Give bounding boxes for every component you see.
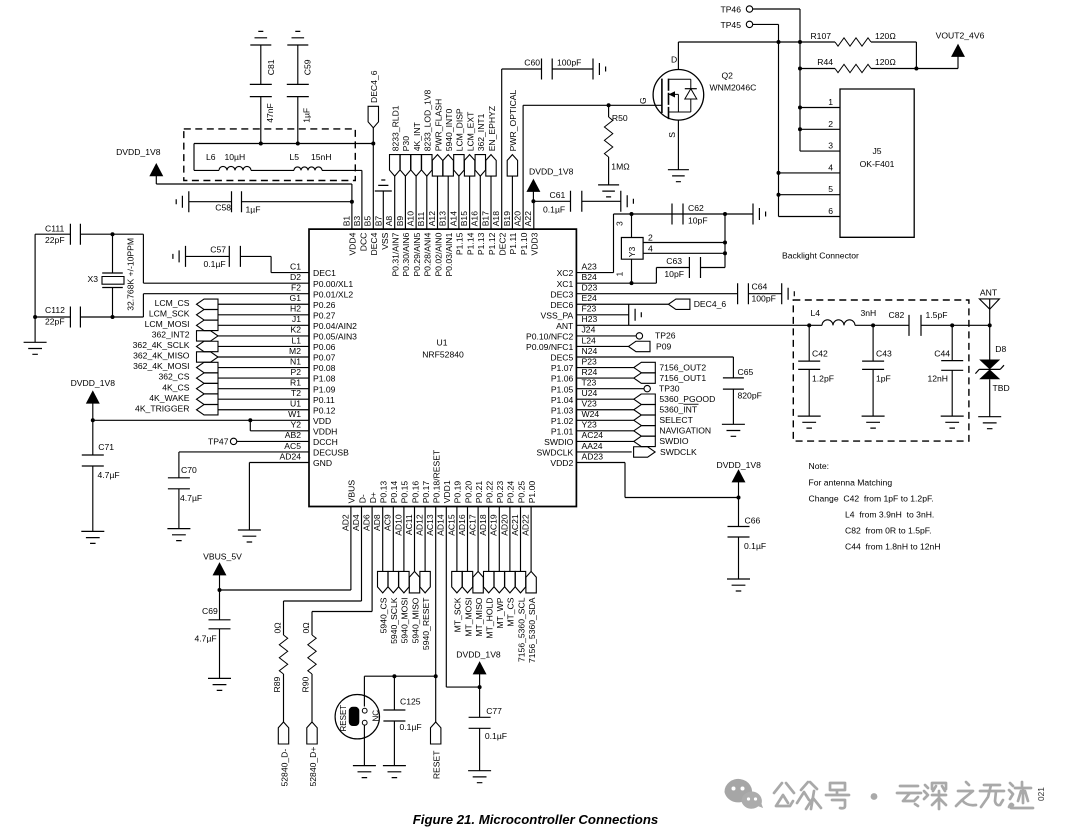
wire DEC1 to pin C1 xyxy=(240,256,309,272)
svg-text:P0.12: P0.12 xyxy=(313,405,336,415)
svg-text:P1.10: P1.10 xyxy=(519,232,529,255)
svg-text:VSS: VSS xyxy=(380,232,390,249)
wire C63 branch xyxy=(701,214,726,268)
capacitor C64 100pF xyxy=(576,293,737,295)
wire crystal left leg xyxy=(34,234,36,342)
svg-text:Q2: Q2 xyxy=(722,71,734,81)
svg-text:P0.16: P0.16 xyxy=(410,481,420,504)
node 362_4K_SCLK flag xyxy=(197,341,219,351)
svg-text:R44: R44 xyxy=(817,57,833,67)
svg-text:VOUT2_4V6: VOUT2_4V6 xyxy=(936,31,985,41)
svg-text:G1: G1 xyxy=(290,293,302,303)
node 5940_RESET flag xyxy=(424,507,426,572)
node 4K_INT flag xyxy=(411,155,421,177)
svg-text:C112: C112 xyxy=(45,305,65,315)
node 8233_RLD1 flag xyxy=(390,155,400,177)
svg-text:A8: A8 xyxy=(384,216,394,227)
ground C71 xyxy=(81,531,104,543)
capacitor C58 1uF xyxy=(176,191,189,212)
ground C65 xyxy=(722,424,745,436)
svg-text:AC19: AC19 xyxy=(489,514,499,536)
capacitor C71 4.7uF xyxy=(92,420,94,455)
svg-text:MT_HOLD: MT_HOLD xyxy=(485,598,495,639)
node LCM_DISP flag xyxy=(454,155,464,177)
resistor R50 1Mohm xyxy=(608,105,610,117)
wire pin A14 xyxy=(458,176,460,229)
svg-text:4K_CS: 4K_CS xyxy=(162,382,189,392)
svg-text:H23: H23 xyxy=(582,314,598,324)
svg-text:AD20: AD20 xyxy=(499,514,509,536)
svg-text:C43: C43 xyxy=(876,349,892,359)
svg-text:U1: U1 xyxy=(437,338,448,348)
svg-text:P1.02: P1.02 xyxy=(551,416,574,426)
svg-text:0.1µF: 0.1µF xyxy=(543,204,565,214)
svg-text:D8: D8 xyxy=(995,344,1006,354)
svg-text:Backlight Connector: Backlight Connector xyxy=(782,251,859,261)
capacitor C82 1.5pF xyxy=(909,315,921,336)
svg-text:0.1µF: 0.1µF xyxy=(744,541,766,551)
watermark text xyxy=(774,782,1033,809)
svg-text:362_INT2: 362_INT2 xyxy=(152,330,190,340)
capacitor C61 0.1uF xyxy=(533,200,570,202)
svg-text:0.1µF: 0.1µF xyxy=(485,731,507,741)
crystal X3 32.768K xyxy=(112,234,114,273)
wire Y3 pin 2 xyxy=(643,242,725,244)
svg-text:L5: L5 xyxy=(290,152,300,162)
svg-text:1.2pF: 1.2pF xyxy=(812,374,834,384)
node 5940_MISO flag xyxy=(414,507,416,572)
test point TP26 xyxy=(576,335,636,337)
svg-text:C66: C66 xyxy=(745,516,761,526)
wire XL2 to pin F2 xyxy=(143,294,309,317)
svg-text:J24: J24 xyxy=(582,325,596,335)
svg-text:P0.18/RESET: P0.18/RESET xyxy=(432,449,442,503)
node LCM_SCK flag xyxy=(197,310,219,320)
svg-text:D+: D+ xyxy=(368,492,378,503)
svg-text:NRF52840: NRF52840 xyxy=(422,350,464,360)
svg-text:DECUSB: DECUSB xyxy=(313,448,349,458)
svg-text:P0.28/ANI4: P0.28/ANI4 xyxy=(423,232,433,276)
wire pin B13 xyxy=(447,176,449,229)
svg-text:P0.15: P0.15 xyxy=(400,481,410,504)
svg-text:P2: P2 xyxy=(290,367,301,377)
svg-text:C111: C111 xyxy=(45,224,64,234)
dashed box antenna matching xyxy=(793,300,969,441)
svg-text:R1: R1 xyxy=(290,377,301,387)
svg-text:Y2: Y2 xyxy=(290,420,301,430)
svg-text:P0.05/AIN3: P0.05/AIN3 xyxy=(313,332,357,342)
svg-text:100pF: 100pF xyxy=(752,294,776,304)
svg-text:7156_5360_SDA: 7156_5360_SDA xyxy=(527,597,537,663)
svg-text:P1.00: P1.00 xyxy=(527,481,537,504)
node 5940_INT0 flag xyxy=(443,155,453,177)
svg-text:EN_EPHYZ: EN_EPHYZ xyxy=(487,106,497,151)
wire Y3 pin 1 xyxy=(631,259,633,283)
svg-text:DEC4: DEC4 xyxy=(369,232,379,255)
svg-text:4.7µF: 4.7µF xyxy=(180,493,202,503)
svg-text:A10: A10 xyxy=(406,211,416,227)
svg-text:362_4K_MISO: 362_4K_MISO xyxy=(133,351,190,361)
svg-text:B9: B9 xyxy=(395,216,405,227)
svg-text:P0.31/AIN7: P0.31/AIN7 xyxy=(391,232,401,276)
svg-text:C59: C59 xyxy=(303,59,313,75)
capacitor C43 1pF xyxy=(872,325,874,361)
svg-text:1: 1 xyxy=(615,272,625,277)
svg-text:DEC4_6: DEC4_6 xyxy=(369,70,379,103)
svg-text:1µF: 1µF xyxy=(246,205,261,215)
svg-text:P0.17: P0.17 xyxy=(421,481,431,504)
svg-text:Y3: Y3 xyxy=(627,247,637,258)
node SWDIO flag xyxy=(576,440,633,442)
svg-text:B5: B5 xyxy=(363,216,373,227)
capacitor C69 4.7uF xyxy=(219,590,221,620)
svg-text:1µF: 1µF xyxy=(302,108,312,123)
wire XL1 to pin D2 xyxy=(143,234,309,283)
svg-text:C77: C77 xyxy=(486,706,502,716)
svg-text:3nH: 3nH xyxy=(861,308,877,318)
node 7156_OUT1 flag xyxy=(576,377,633,379)
wire pin A16 xyxy=(479,176,481,229)
ground C69 xyxy=(208,678,231,690)
svg-text:5940_RESET: 5940_RESET xyxy=(421,597,431,650)
wire DEC4 top rail xyxy=(194,144,373,171)
svg-text:R89: R89 xyxy=(272,677,282,693)
svg-text:AD24: AD24 xyxy=(280,451,302,461)
svg-text:P0.03/AIN1: P0.03/AIN1 xyxy=(444,232,454,276)
svg-text:AD6: AD6 xyxy=(362,514,372,531)
node 7156_OUT2 flag xyxy=(576,367,633,369)
svg-text:W24: W24 xyxy=(582,409,600,419)
svg-text:8233_RLD1: 8233_RLD1 xyxy=(391,105,401,151)
node 5940_CS flag xyxy=(382,507,384,572)
svg-text:15nH: 15nH xyxy=(311,152,332,162)
transistor Q2 WNM2046C xyxy=(653,70,704,121)
svg-text:XC1: XC1 xyxy=(557,279,574,289)
svg-text:P1.09: P1.09 xyxy=(313,384,336,394)
svg-text:AD16: AD16 xyxy=(457,514,467,536)
svg-text:362_CS: 362_CS xyxy=(158,372,189,382)
svg-text:TBD: TBD xyxy=(993,383,1010,393)
svg-text:C64: C64 xyxy=(752,281,768,291)
wire Y3 pin 4 xyxy=(643,252,725,254)
svg-text:L4: L4 xyxy=(811,308,821,318)
svg-text:TP30: TP30 xyxy=(659,383,680,393)
svg-text:T2: T2 xyxy=(291,388,301,398)
svg-text:4.7µF: 4.7µF xyxy=(98,470,120,480)
svg-text:1pF: 1pF xyxy=(876,374,891,384)
wire Q2 drain xyxy=(677,42,679,70)
svg-text:100pF: 100pF xyxy=(557,58,581,68)
svg-text:0Ω: 0Ω xyxy=(301,622,311,634)
svg-text:N24: N24 xyxy=(582,346,598,356)
svg-text:10pF: 10pF xyxy=(688,216,708,226)
capacitor C77 0.1uF xyxy=(479,687,481,717)
svg-text:AC24: AC24 xyxy=(582,430,604,440)
wire reset rail xyxy=(364,676,435,706)
svg-text:52840_D+: 52840_D+ xyxy=(308,747,318,787)
pin J5-6 xyxy=(779,216,841,218)
resistor R90 0 ohm xyxy=(312,507,372,636)
svg-text:P0.06: P0.06 xyxy=(313,342,336,352)
svg-text:VBUS_5V: VBUS_5V xyxy=(203,552,242,562)
svg-text:L4 from 3.9nH to 3nH.: L4 from 3.9nH to 3nH. xyxy=(845,510,934,520)
svg-text:P0.19: P0.19 xyxy=(453,481,463,504)
capacitor C62 10pF xyxy=(672,204,683,225)
svg-text:0Ω: 0Ω xyxy=(273,622,283,634)
svg-text:P0.26: P0.26 xyxy=(313,300,336,310)
svg-text:4K_INT: 4K_INT xyxy=(412,121,422,151)
node 52840_D- flag xyxy=(278,722,288,744)
svg-text:AD2: AD2 xyxy=(340,514,350,531)
node 4K_WAKE flag xyxy=(197,394,219,404)
svg-text:4: 4 xyxy=(828,162,833,172)
svg-text:P1.05: P1.05 xyxy=(551,384,574,394)
svg-text:DEC1: DEC1 xyxy=(313,268,336,278)
svg-text:R107: R107 xyxy=(810,31,831,41)
svg-text:12nH: 12nH xyxy=(927,374,948,384)
svg-text:M2: M2 xyxy=(289,346,301,356)
svg-text:TP46: TP46 xyxy=(720,5,741,15)
svg-text:PWR_FLASH: PWR_FLASH xyxy=(433,99,443,152)
svg-text:1.5pF: 1.5pF xyxy=(926,310,948,320)
svg-text:DVDD_1V8: DVDD_1V8 xyxy=(716,460,761,470)
wire Q2 source xyxy=(677,120,679,170)
svg-text:3: 3 xyxy=(828,141,833,151)
capacitor C125 0.1uF xyxy=(393,676,395,710)
svg-text:P0.08: P0.08 xyxy=(313,363,336,373)
node NAVIGATION flag xyxy=(576,430,633,432)
ground C70 xyxy=(167,529,190,541)
node P30 flag xyxy=(400,155,410,177)
node MT_WP flag xyxy=(498,507,500,572)
svg-text:TP45: TP45 xyxy=(720,20,741,30)
svg-text:C82 from 0R to 1.5pF.: C82 from 0R to 1.5pF. xyxy=(845,526,931,536)
svg-text:021: 021 xyxy=(1036,787,1046,801)
svg-text:C44: C44 xyxy=(934,349,950,359)
svg-text:Figure 21. Microcontroller Con: Figure 21. Microcontroller Connections xyxy=(413,812,658,827)
svg-text:SWDIO: SWDIO xyxy=(544,437,573,447)
svg-text:C82: C82 xyxy=(889,310,905,320)
svg-text:P0.14: P0.14 xyxy=(389,481,399,504)
svg-text:120Ω: 120Ω xyxy=(875,57,896,67)
svg-text:SWDCLK: SWDCLK xyxy=(660,447,697,457)
svg-text:C65: C65 xyxy=(738,367,754,377)
svg-text:F2: F2 xyxy=(291,283,301,293)
svg-text:B3: B3 xyxy=(352,216,362,227)
op-amp U1 body NRF52840 xyxy=(309,229,576,506)
svg-text:P1.14: P1.14 xyxy=(465,232,475,255)
wire VDD1 xyxy=(446,507,479,688)
pin J5-4 xyxy=(779,172,841,174)
node 5360_INT flag xyxy=(576,409,633,411)
svg-text:4K_TRIGGER: 4K_TRIGGER xyxy=(135,403,189,413)
wire switch to ground xyxy=(363,725,365,766)
svg-text:AD4: AD4 xyxy=(351,514,361,531)
svg-text:U24: U24 xyxy=(582,388,598,398)
svg-text:C42: C42 xyxy=(812,349,828,359)
svg-text:0.1µF: 0.1µF xyxy=(400,722,422,732)
svg-text:AC17: AC17 xyxy=(468,514,478,536)
svg-text:47nF: 47nF xyxy=(265,103,275,123)
ground crystal xyxy=(24,342,47,354)
svg-text:DCCH: DCCH xyxy=(313,437,338,447)
svg-text:RESET: RESET xyxy=(339,705,348,732)
svg-text:VSS_PA: VSS_PA xyxy=(540,310,573,320)
svg-text:B1: B1 xyxy=(341,216,351,227)
wire pin A12 xyxy=(437,176,439,229)
svg-text:P0.24: P0.24 xyxy=(506,481,516,504)
svg-text:D: D xyxy=(671,55,677,65)
svg-text:P0.21: P0.21 xyxy=(474,481,484,504)
svg-text:P1.06: P1.06 xyxy=(551,374,574,384)
resistor R89 0 ohm xyxy=(284,507,362,636)
pin J5-3 xyxy=(800,150,840,152)
svg-text:P09: P09 xyxy=(656,341,672,351)
svg-text:P0.23: P0.23 xyxy=(495,481,505,504)
node MT_MOSI flag xyxy=(467,507,469,572)
svg-text:AC9: AC9 xyxy=(383,514,393,531)
svg-text:ANT: ANT xyxy=(556,321,574,331)
svg-text:B7: B7 xyxy=(373,216,383,227)
svg-text:L24: L24 xyxy=(582,335,597,345)
svg-text:SWDIO: SWDIO xyxy=(659,436,688,446)
svg-text:N1: N1 xyxy=(290,356,301,366)
svg-text:DEC5: DEC5 xyxy=(550,353,573,363)
capacitor C70 4.7uF xyxy=(179,452,309,478)
svg-text:C62: C62 xyxy=(688,203,704,213)
svg-text:F23: F23 xyxy=(582,304,597,314)
node MT_SCK flag xyxy=(456,507,458,572)
node LCM_CS flag xyxy=(197,299,219,309)
wire VDD row W1 xyxy=(93,419,309,421)
svg-text:P0.11: P0.11 xyxy=(313,395,335,405)
svg-text:LCM_SCK: LCM_SCK xyxy=(149,308,190,318)
watermark wechat logo xyxy=(724,779,763,809)
node 7156_5360_SDA flag xyxy=(530,507,532,572)
svg-text:L1: L1 xyxy=(291,335,301,345)
wire pin A10 xyxy=(415,176,417,229)
svg-text:VDDH: VDDH xyxy=(313,426,337,436)
svg-text:NAVIGATION: NAVIGATION xyxy=(659,426,711,436)
svg-text:B17: B17 xyxy=(480,211,490,227)
svg-text:7156_OUT2: 7156_OUT2 xyxy=(659,362,706,372)
svg-text:LCM_EXT: LCM_EXT xyxy=(465,111,475,151)
svg-text:C60: C60 xyxy=(524,58,540,68)
svg-text:AC11: AC11 xyxy=(404,514,414,535)
node DEC4_6 flag top xyxy=(368,106,378,128)
svg-text:C44 from 1.8nH to 12nH: C44 from 1.8nH to 12nH xyxy=(845,542,941,552)
capacitor C81 47nF xyxy=(250,31,271,45)
wire P0.18/RESET net xyxy=(435,507,437,723)
node 8233_LOD_1V8 flag xyxy=(422,155,432,177)
svg-text:AD23: AD23 xyxy=(582,451,604,461)
svg-text:AB2: AB2 xyxy=(285,430,301,440)
svg-text:P0.00/XL1: P0.00/XL1 xyxy=(313,279,353,289)
svg-text:P0.22: P0.22 xyxy=(485,481,495,504)
svg-text:P1.07: P1.07 xyxy=(551,363,574,373)
capacitor C63 10pF xyxy=(689,257,700,278)
pin B7 VSS up-ground xyxy=(382,191,384,229)
svg-text:P1.03: P1.03 xyxy=(551,405,574,415)
wire pin B9 xyxy=(404,176,406,229)
svg-text:6: 6 xyxy=(828,206,833,216)
wire antenna row xyxy=(809,324,909,326)
svg-text:P1.04: P1.04 xyxy=(551,395,574,405)
svg-text:A23: A23 xyxy=(582,261,598,271)
svg-text:P0.30/AIN6: P0.30/AIN6 xyxy=(401,232,411,276)
capacitor C60 100pF xyxy=(502,69,542,229)
svg-text:W1: W1 xyxy=(288,409,301,419)
svg-text:AC15: AC15 xyxy=(446,514,456,536)
svg-text:AD12: AD12 xyxy=(415,514,425,536)
node MT_CS flag xyxy=(509,507,511,572)
pin J5-5 xyxy=(779,194,841,196)
node 7156_5360_SCL flag xyxy=(520,507,522,572)
svg-text:22pF: 22pF xyxy=(45,235,65,245)
svg-text:5940_SCLK: 5940_SCLK xyxy=(389,597,399,644)
svg-text:D23: D23 xyxy=(582,283,598,293)
node 4K_TRIGGER flag xyxy=(197,405,219,415)
wire pin B15 xyxy=(469,176,471,229)
wire VBUS xyxy=(220,507,351,591)
svg-text:P0.27: P0.27 xyxy=(313,310,336,320)
connector J5 OK-F401 xyxy=(840,89,914,237)
svg-text:1: 1 xyxy=(828,97,833,107)
svg-text:SWDCLK: SWDCLK xyxy=(537,448,574,458)
svg-text:8233_LOD_1V8: 8233_LOD_1V8 xyxy=(423,89,433,151)
svg-text:A20: A20 xyxy=(513,211,523,227)
diode D8 TVS xyxy=(989,325,991,359)
capacitor C57 0.1uF xyxy=(173,246,186,267)
svg-text:4: 4 xyxy=(648,244,653,254)
svg-text:NC: NC xyxy=(372,710,381,722)
ground C61 xyxy=(621,191,634,212)
svg-text:AD22: AD22 xyxy=(521,514,531,536)
wire GND pin AD24 xyxy=(249,463,309,531)
svg-text:B15: B15 xyxy=(459,211,469,227)
capacitor C44 12nH xyxy=(951,325,953,360)
svg-text:AD14: AD14 xyxy=(436,514,446,536)
svg-text:22pF: 22pF xyxy=(45,316,65,326)
svg-text:820pF: 820pF xyxy=(738,391,762,401)
svg-text:DEC2: DEC2 xyxy=(498,232,508,255)
node 4K_CS flag xyxy=(197,383,219,393)
wire ANT row xyxy=(576,324,809,326)
svg-text:5940_MISO: 5940_MISO xyxy=(410,597,420,643)
svg-text:VDD4: VDD4 xyxy=(348,232,358,255)
wire Y3 pin 3 xyxy=(631,214,633,238)
ground C62 xyxy=(725,213,753,215)
svg-text:A18: A18 xyxy=(491,211,501,227)
ground C43 xyxy=(862,416,885,428)
ground C60 xyxy=(593,59,606,80)
svg-text:MT_MISO: MT_MISO xyxy=(474,597,484,636)
svg-text:P1.13: P1.13 xyxy=(476,232,486,255)
svg-text:DVDD_1V8: DVDD_1V8 xyxy=(529,167,574,177)
node LCM_MOSI flag xyxy=(197,320,219,330)
svg-text:D-: D- xyxy=(357,494,367,503)
svg-text:P1.15: P1.15 xyxy=(455,232,465,255)
wire VDD3 pin A22 xyxy=(533,201,535,229)
node SWDCLK flag xyxy=(576,451,631,453)
svg-text:A22: A22 xyxy=(523,211,533,227)
svg-text:P1.11: P1.11 xyxy=(508,232,518,254)
svg-text:52840_D-: 52840_D- xyxy=(279,749,289,787)
ground switch xyxy=(353,766,376,778)
svg-text:2: 2 xyxy=(828,119,833,129)
node PWR_OPTICAL flag xyxy=(507,155,517,177)
svg-text:AD10: AD10 xyxy=(393,514,403,536)
